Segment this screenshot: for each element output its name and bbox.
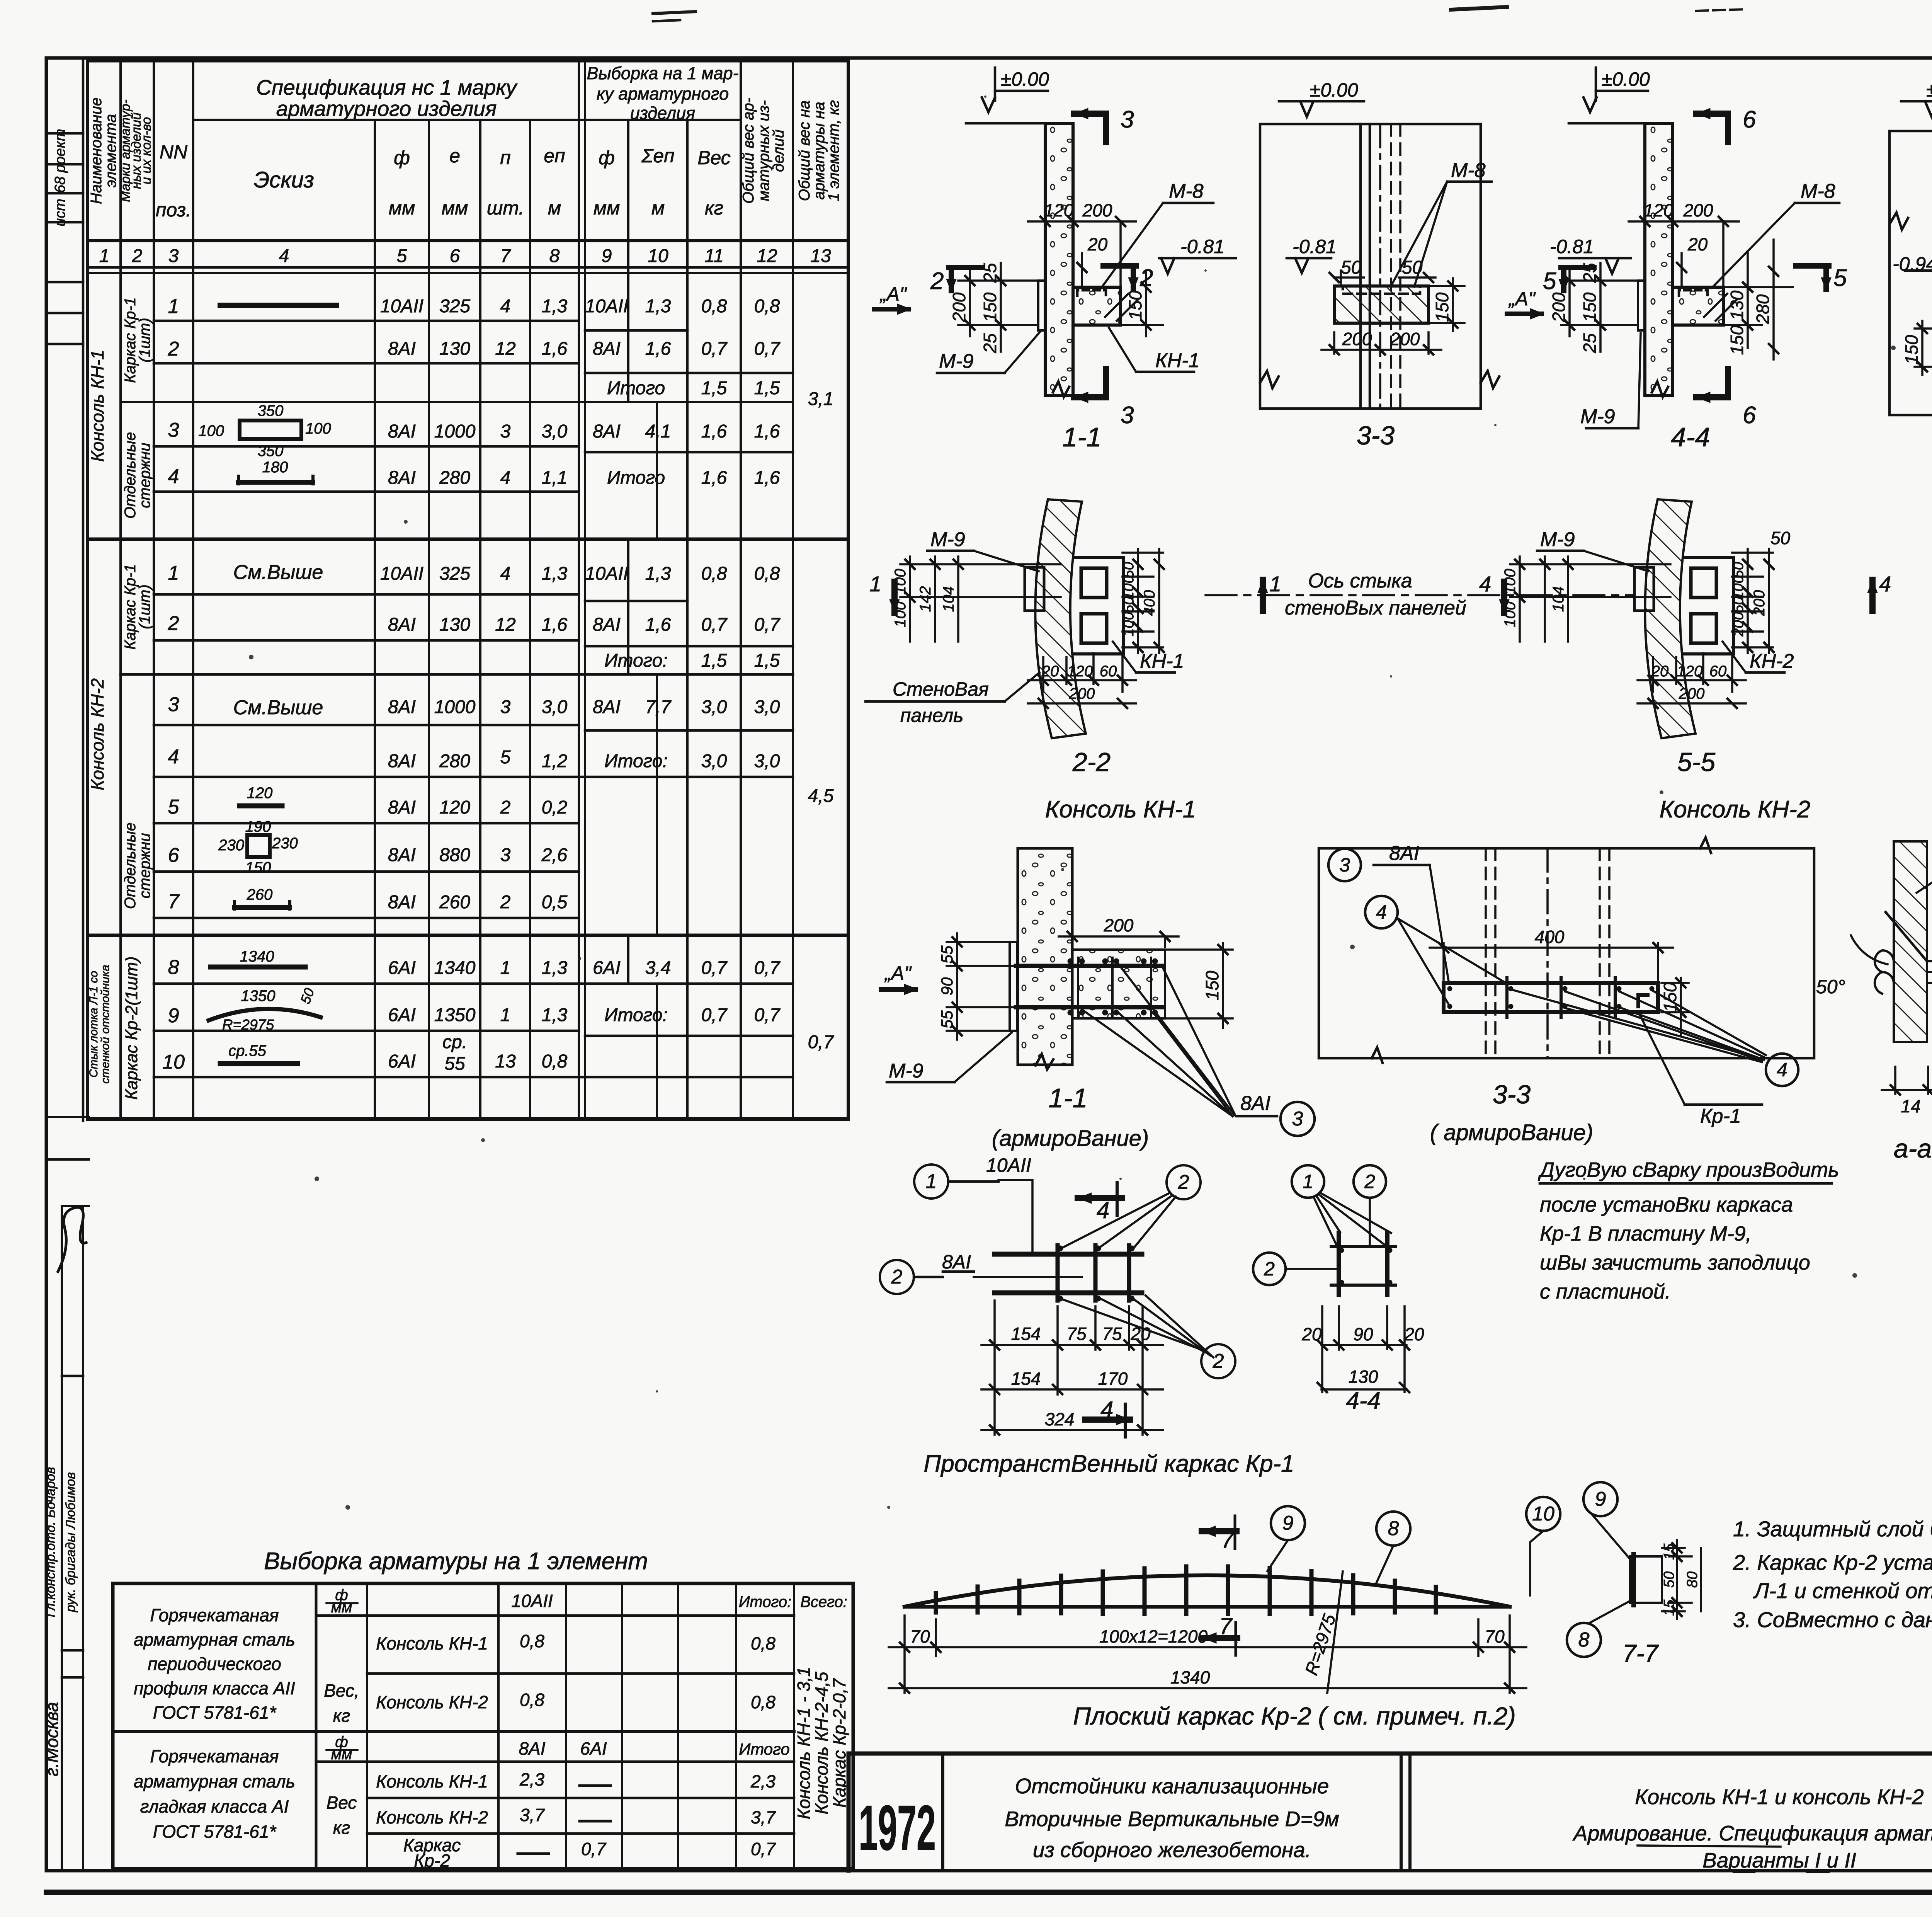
svg-text:12: 12	[495, 615, 515, 635]
svg-text:7: 7	[1221, 1527, 1235, 1553]
svg-text:6АI: 6АI	[593, 958, 621, 978]
svg-text:280: 280	[439, 751, 470, 771]
svg-text:1,6: 1,6	[701, 421, 727, 442]
svg-text:104: 104	[1550, 586, 1567, 612]
svg-text:8АI: 8АI	[388, 892, 416, 913]
svg-text:4: 4	[279, 246, 289, 266]
svg-text:1: 1	[869, 572, 881, 596]
svg-text:1972: 1972	[859, 1792, 936, 1863]
svg-text:0,7: 0,7	[751, 1839, 776, 1859]
svg-text:Вес: Вес	[697, 147, 731, 169]
svg-text:50: 50	[1661, 1571, 1677, 1588]
svg-text:200: 200	[1751, 590, 1768, 616]
svg-text:6: 6	[1743, 106, 1756, 133]
svg-text:130: 130	[1349, 1367, 1378, 1387]
svg-text:8: 8	[1578, 1629, 1590, 1651]
svg-text:Всего:: Всего:	[800, 1594, 847, 1611]
svg-text:3: 3	[168, 246, 179, 266]
svg-text:280: 280	[439, 468, 470, 488]
svg-text:R=2975: R=2975	[222, 1017, 274, 1033]
svg-text:230: 230	[272, 835, 298, 852]
svg-text:Отстойники канализационные: Отстойники канализационные	[1015, 1774, 1329, 1798]
svg-text:Ось стыка: Ось стыка	[1308, 570, 1412, 592]
svg-text:3,7: 3,7	[520, 1805, 545, 1825]
svg-text:2: 2	[1213, 1350, 1224, 1372]
svg-text:75: 75	[1066, 1324, 1087, 1344]
svg-text:4: 4	[1097, 1197, 1109, 1223]
svg-text:50: 50	[1770, 528, 1791, 548]
svg-text:Консоль КН-1 - 3,1: Консоль КН-1 - 3,1	[794, 1667, 814, 1820]
svg-text:1340: 1340	[240, 948, 274, 965]
svg-text:Итого: Итого	[739, 1740, 790, 1758]
svg-text:поз.: поз.	[156, 199, 191, 221]
svg-text:120: 120	[1044, 200, 1074, 220]
svg-text:25: 25	[1580, 263, 1600, 283]
svg-text:0,7: 0,7	[701, 615, 728, 635]
svg-text:3,0: 3,0	[542, 421, 568, 442]
svg-text:6АI: 6АI	[580, 1738, 607, 1759]
svg-text:4: 4	[1479, 572, 1491, 596]
svg-text:20: 20	[1651, 663, 1669, 680]
svg-text:100: 100	[1730, 575, 1747, 599]
svg-text:стеноВых панелей: стеноВых панелей	[1285, 597, 1466, 619]
svg-text:КН-1: КН-1	[1155, 349, 1199, 372]
svg-text:ГОСТ 5781-61*: ГОСТ 5781-61*	[153, 1822, 277, 1842]
svg-text:кг: кг	[333, 1706, 350, 1726]
svg-text:1,6: 1,6	[754, 468, 780, 488]
svg-text:±0.00: ±0.00	[1001, 68, 1049, 90]
svg-text:1: 1	[1269, 572, 1281, 596]
svg-text:200: 200	[1104, 915, 1134, 935]
svg-text:8: 8	[549, 246, 560, 266]
svg-text:М-9: М-9	[930, 528, 965, 551]
svg-text:Σеп: Σеп	[641, 145, 674, 167]
svg-text:Консоль КН-1: Консоль КН-1	[376, 1633, 488, 1653]
svg-text:М-9: М-9	[889, 1060, 923, 1082]
svg-text:10АII: 10АII	[585, 564, 628, 584]
svg-text:1,6: 1,6	[645, 339, 671, 359]
svg-text:Вес,: Вес,	[324, 1680, 359, 1701]
svg-text:М-8: М-8	[1169, 180, 1204, 203]
svg-text:роект: роект	[52, 129, 68, 173]
svg-text:±0.00: ±0.00	[1310, 79, 1358, 101]
svg-text:0,8: 0,8	[520, 1690, 544, 1710]
svg-text:200: 200	[1390, 329, 1420, 349]
svg-text:1,6: 1,6	[542, 615, 568, 635]
svg-text:М-8: М-8	[1801, 180, 1835, 203]
svg-text:2: 2	[168, 338, 179, 360]
svg-text:ф: ф	[599, 147, 615, 169]
svg-text:0,5: 0,5	[542, 892, 568, 913]
svg-text:130: 130	[1727, 290, 1747, 320]
svg-text:13: 13	[495, 1051, 516, 1072]
svg-text:См.Выше: См.Выше	[233, 696, 323, 719]
svg-text:1-1: 1-1	[1062, 422, 1101, 452]
svg-text:1,5: 1,5	[754, 650, 780, 671]
svg-text:3-3: 3-3	[1357, 421, 1395, 450]
svg-text:4: 4	[168, 746, 179, 768]
svg-text:4: 4	[1777, 1059, 1787, 1081]
svg-text:3,7: 3,7	[751, 1807, 776, 1827]
svg-text:324: 324	[1045, 1409, 1075, 1429]
svg-text:0,8: 0,8	[751, 1633, 776, 1653]
svg-text:3,0: 3,0	[701, 697, 727, 717]
svg-text:( армироВание): ( армироВание)	[1430, 1120, 1594, 1145]
svg-text:6: 6	[1743, 402, 1756, 429]
svg-text:Кр-1: Кр-1	[1700, 1105, 1741, 1127]
svg-text:Армирование. Спецификация а: Армирование. Спецификация арматуры.	[1572, 1821, 1932, 1845]
svg-text:3. СоВместно с данным с: 3. СоВместно с данным см. лист АС-5.	[1733, 1607, 1932, 1632]
svg-text:2: 2	[1139, 265, 1153, 291]
svg-text:Общий вес ар-: Общий вес ар-	[740, 98, 757, 204]
svg-text:„А": „А"	[884, 962, 912, 984]
svg-text:4: 4	[168, 465, 179, 488]
svg-text:1340: 1340	[434, 958, 476, 978]
svg-text:-0.81: -0.81	[1180, 236, 1225, 257]
svg-text:Консоль КН-1: Консоль КН-1	[376, 1771, 488, 1791]
svg-text:150: 150	[1580, 292, 1600, 322]
svg-text:0,8: 0,8	[754, 564, 780, 584]
svg-text:100: 100	[1502, 569, 1519, 595]
svg-text:260: 260	[439, 892, 470, 913]
svg-text:400: 400	[1535, 927, 1565, 947]
svg-text:е: е	[449, 145, 460, 167]
svg-text:периодического: периодического	[148, 1654, 281, 1674]
svg-text:7: 7	[1219, 1613, 1233, 1639]
svg-text:Кр-1 В пластину М-9,: Кр-1 В пластину М-9,	[1540, 1222, 1752, 1245]
svg-text:25: 25	[1580, 333, 1600, 354]
svg-text:100: 100	[892, 602, 909, 628]
svg-text:1,5: 1,5	[701, 650, 727, 671]
svg-text:0,8: 0,8	[754, 296, 780, 317]
svg-text:104: 104	[940, 586, 957, 612]
svg-text:12: 12	[757, 246, 777, 266]
svg-text:8АI: 8АI	[388, 797, 416, 818]
svg-text:3,0: 3,0	[701, 751, 727, 771]
svg-text:8АI: 8АI	[388, 615, 416, 635]
svg-text:4: 4	[1376, 901, 1387, 923]
svg-text:Консоль КН-2-4,5: Консоль КН-2-4,5	[811, 1672, 832, 1814]
svg-text:10: 10	[1532, 1503, 1554, 1525]
svg-text:200: 200	[949, 292, 969, 322]
svg-text:1,6: 1,6	[645, 615, 671, 635]
svg-text:Консоль КН-2: Консоль КН-2	[376, 1692, 488, 1712]
svg-text:4,5: 4,5	[808, 786, 834, 806]
svg-text:ГОСТ 5781-61*: ГОСТ 5781-61*	[153, 1702, 277, 1723]
svg-text:100х12=1200: 100х12=1200	[1099, 1626, 1208, 1646]
svg-text:0,8: 0,8	[751, 1692, 776, 1712]
svg-text:280: 280	[1753, 294, 1773, 324]
svg-text:20: 20	[1404, 1324, 1424, 1344]
svg-text:0,7: 0,7	[754, 1005, 781, 1025]
svg-text:1. Защитный слой бетона - 2: 1. Защитный слой бетона - 20мм.	[1733, 1517, 1932, 1541]
svg-text:2: 2	[930, 268, 944, 295]
svg-text:8АI: 8АI	[1389, 842, 1419, 865]
svg-text:3,1: 3,1	[808, 389, 834, 409]
svg-text:мм: мм	[331, 1746, 352, 1763]
svg-text:гладкая класса АI: гладкая класса АI	[140, 1796, 289, 1817]
svg-text:2,3: 2,3	[519, 1769, 544, 1789]
svg-text:9: 9	[1282, 1512, 1294, 1534]
svg-text:8: 8	[168, 956, 179, 979]
svg-text:1-1: 1-1	[1048, 1083, 1087, 1113]
svg-text:20: 20	[1041, 663, 1059, 680]
svg-text:0,8: 0,8	[701, 564, 727, 584]
svg-text:8АI: 8АI	[593, 697, 621, 717]
svg-text:Выборка арматуры на 1 элемен: Выборка арматуры на 1 элемент	[264, 1548, 648, 1575]
svg-text:120: 120	[439, 797, 470, 818]
svg-text:4: 4	[500, 468, 511, 488]
svg-text:из сборного железобетона.: из сборного железобетона.	[1033, 1838, 1311, 1862]
svg-text:1,6: 1,6	[754, 421, 780, 442]
svg-text:190: 190	[245, 818, 271, 835]
svg-text:15: 15	[1661, 1599, 1677, 1616]
svg-text:0,8: 0,8	[701, 296, 727, 317]
svg-text:стержни: стержни	[136, 833, 153, 898]
svg-text:120: 120	[247, 785, 273, 802]
svg-text:делий: делий	[770, 129, 787, 172]
svg-text:6: 6	[168, 844, 179, 867]
svg-text:1: 1	[500, 958, 511, 978]
svg-text:100: 100	[198, 422, 224, 439]
svg-text:арматурного изделия: арматурного изделия	[276, 97, 497, 121]
svg-text:Каркас Кр-2-0,7: Каркас Кр-2-0,7	[829, 1678, 849, 1808]
svg-text:Плоский каркас Кр-2 ( см.: Плоский каркас Кр-2 ( см. примеч. п.2)	[1073, 1702, 1516, 1730]
svg-text:8АI: 8АI	[519, 1738, 545, 1759]
svg-text:260: 260	[247, 886, 273, 903]
svg-text:Выборка на 1 мар-: Выборка на 1 мар-	[587, 63, 739, 83]
svg-text:изделия: изделия	[630, 103, 695, 123]
svg-text:7: 7	[168, 890, 180, 913]
svg-text:50: 50	[1341, 257, 1362, 278]
svg-text:0,7: 0,7	[754, 339, 781, 359]
svg-text:0,8: 0,8	[520, 1631, 544, 1651]
svg-text:3,0: 3,0	[542, 697, 568, 717]
svg-text:180: 180	[262, 459, 288, 476]
svg-text:3: 3	[1339, 854, 1350, 876]
svg-text:г.Москва: г.Москва	[42, 1702, 62, 1777]
svg-text:8АI: 8АI	[388, 751, 416, 771]
svg-text:0,7: 0,7	[754, 958, 781, 978]
svg-text:КН-2: КН-2	[1750, 650, 1794, 672]
svg-text:мм: мм	[389, 197, 415, 219]
svg-text:1,3: 1,3	[542, 1005, 568, 1025]
svg-text:50: 50	[1402, 257, 1423, 278]
svg-text:3: 3	[1292, 1108, 1303, 1130]
svg-text:15: 15	[1661, 1543, 1677, 1560]
svg-text:350: 350	[258, 443, 284, 460]
svg-text:2: 2	[891, 1266, 903, 1288]
svg-text:0,7: 0,7	[581, 1839, 606, 1859]
svg-text:142: 142	[917, 586, 934, 612]
svg-text:880: 880	[439, 845, 470, 865]
svg-text:14: 14	[1901, 1096, 1920, 1116]
svg-text:Итого:: Итого:	[604, 1005, 668, 1025]
svg-text:25: 25	[980, 333, 1000, 354]
svg-text:3-3: 3-3	[1493, 1080, 1531, 1109]
svg-text:6АI: 6АI	[388, 1051, 416, 1072]
svg-text:±0.00: ±0.00	[1926, 79, 1932, 101]
svg-text:Кр-2: Кр-2	[414, 1851, 450, 1871]
svg-text:20: 20	[1301, 1324, 1322, 1344]
svg-text:2,6: 2,6	[541, 845, 568, 865]
svg-text:90: 90	[938, 977, 956, 995]
svg-text:Вторичные Вертикальные D=: Вторичные Вертикальные D=9м	[1005, 1807, 1339, 1831]
svg-text:арматурная сталь: арматурная сталь	[134, 1771, 295, 1791]
svg-text:20: 20	[1087, 234, 1108, 254]
svg-text:8АI: 8АI	[593, 421, 621, 442]
svg-text:4: 4	[500, 564, 511, 584]
svg-text:120: 120	[1677, 663, 1703, 680]
svg-text:2,3: 2,3	[750, 1771, 776, 1791]
svg-text:7-7: 7-7	[1622, 1639, 1659, 1667]
svg-text:154: 154	[1011, 1324, 1041, 1344]
svg-text:170: 170	[1098, 1369, 1128, 1389]
svg-text:арматурная сталь: арматурная сталь	[134, 1629, 295, 1650]
svg-text:3: 3	[1121, 402, 1134, 429]
svg-text:2-2: 2-2	[1072, 747, 1111, 777]
svg-text:6: 6	[450, 246, 460, 266]
svg-text:150: 150	[245, 859, 271, 876]
svg-text:(1шт): (1шт)	[136, 584, 153, 629]
svg-text:68: 68	[52, 177, 68, 193]
svg-text:2: 2	[1178, 1171, 1189, 1193]
svg-text:еп: еп	[544, 145, 565, 167]
svg-text:Горячекатаная: Горячекатаная	[150, 1746, 279, 1766]
svg-text:5-5: 5-5	[1677, 747, 1715, 777]
svg-text:СтеноВая: СтеноВая	[893, 678, 989, 700]
svg-text:4,1: 4,1	[645, 421, 671, 442]
svg-text:„А": „А"	[1508, 288, 1536, 310]
svg-text:1,5: 1,5	[754, 378, 780, 398]
svg-text:12: 12	[495, 339, 515, 359]
svg-text:130: 130	[439, 615, 470, 635]
svg-text:Эскиз: Эскиз	[254, 167, 314, 192]
svg-text:100: 100	[1502, 602, 1519, 628]
svg-text:0,7: 0,7	[808, 1032, 835, 1052]
svg-text:Итого: Итого	[607, 378, 665, 398]
svg-text:с пластиной.: с пластиной.	[1540, 1280, 1671, 1303]
svg-text:1,5: 1,5	[701, 378, 727, 398]
svg-text:8АI: 8АI	[593, 615, 621, 635]
svg-text:200: 200	[1069, 685, 1095, 702]
svg-text:10: 10	[162, 1051, 185, 1073]
svg-text:Стык лотка Л-1 со: Стык лотка Л-1 со	[87, 971, 100, 1078]
svg-text:150: 150	[1901, 335, 1922, 364]
svg-text:ДугоВую сВарку произВодить: ДугоВую сВарку произВодить	[1538, 1158, 1839, 1182]
svg-text:4-4: 4-4	[1346, 1388, 1381, 1414]
svg-text:м: м	[548, 197, 561, 219]
svg-text:Гл.констр.отд. Бочаров: Гл.констр.отд. Бочаров	[43, 1467, 58, 1617]
svg-text:7: 7	[500, 246, 512, 266]
svg-text:325: 325	[439, 564, 470, 584]
svg-text:120: 120	[1067, 663, 1093, 680]
svg-text:0,2: 0,2	[542, 797, 568, 818]
svg-text:5: 5	[168, 796, 180, 818]
svg-text:200: 200	[1549, 292, 1569, 322]
svg-text:1000: 1000	[434, 421, 476, 442]
svg-text:55: 55	[938, 945, 956, 964]
svg-text:0,7: 0,7	[701, 958, 728, 978]
svg-text:Итого: Итого	[607, 468, 665, 488]
svg-text:-0.81: -0.81	[1550, 236, 1594, 257]
svg-text:профиля класса АII: профиля класса АII	[134, 1678, 295, 1698]
svg-text:Итого:: Итого:	[604, 751, 668, 771]
svg-text:кг: кг	[705, 197, 723, 219]
svg-text:1,1: 1,1	[542, 468, 568, 488]
svg-text:120: 120	[1644, 200, 1673, 220]
svg-text:Консоль КН-2: Консоль КН-2	[376, 1807, 488, 1827]
svg-text:325: 325	[439, 296, 470, 317]
svg-text:мм: мм	[442, 197, 468, 219]
svg-text:рук. бригады Любимов: рук. бригады Любимов	[63, 1472, 78, 1612]
svg-text:1,6: 1,6	[701, 468, 727, 488]
svg-text:3: 3	[500, 421, 511, 442]
svg-text:и их кол-во: и их кол-во	[139, 117, 154, 184]
svg-text:9: 9	[1595, 1488, 1606, 1510]
svg-text:1,2: 1,2	[542, 751, 568, 771]
svg-text:75: 75	[1102, 1324, 1122, 1344]
svg-text:3: 3	[500, 845, 511, 865]
svg-text:4: 4	[500, 296, 511, 317]
svg-text:8: 8	[1388, 1517, 1399, 1540]
svg-text:9: 9	[602, 246, 612, 266]
svg-text:1: 1	[1303, 1171, 1313, 1192]
svg-text:±0.00: ±0.00	[1602, 68, 1650, 90]
svg-text:150: 150	[1125, 290, 1145, 320]
svg-text:Горячекатаная: Горячекатаная	[150, 1605, 279, 1625]
svg-text:60: 60	[1709, 663, 1727, 680]
svg-text:м: м	[651, 197, 665, 219]
svg-text:2: 2	[168, 612, 179, 635]
svg-text:10АII: 10АII	[986, 1154, 1031, 1176]
svg-text:25: 25	[980, 263, 1000, 283]
svg-text:0,7: 0,7	[754, 615, 781, 635]
svg-text:а-а: а-а	[1894, 1134, 1932, 1163]
svg-text:0,7: 0,7	[701, 339, 728, 359]
svg-text:150: 150	[980, 292, 1000, 322]
svg-text:80: 80	[1684, 1571, 1701, 1588]
svg-text:5: 5	[397, 246, 407, 266]
svg-text:50: 50	[1730, 597, 1747, 613]
svg-text:200: 200	[1683, 200, 1713, 220]
svg-text:-0.94: -0.94	[1893, 253, 1932, 275]
svg-text:КН-1: КН-1	[1140, 650, 1184, 672]
svg-text:шВы зачистить заподлицо: шВы зачистить заподлицо	[1540, 1251, 1810, 1274]
svg-text:55: 55	[938, 1010, 956, 1028]
svg-text:См.Выше: См.Выше	[233, 561, 323, 584]
svg-text:Консоль КН-2: Консоль КН-2	[87, 678, 107, 790]
svg-text:М-9: М-9	[939, 350, 974, 373]
svg-text:200: 200	[1342, 329, 1372, 349]
svg-text:2: 2	[1264, 1258, 1275, 1280]
svg-text:8АI: 8АI	[388, 339, 416, 359]
svg-text:ПространстВенный каркас Кр-1: ПространстВенный каркас Кр-1	[923, 1451, 1294, 1477]
svg-text:Л-1 и стенкой отстойника н: Л-1 и стенкой отстойника на консоли, см.…	[1753, 1578, 1932, 1603]
svg-text:10АII: 10АII	[380, 564, 423, 584]
svg-text:0,7: 0,7	[701, 1005, 728, 1025]
svg-text:8АI: 8АI	[388, 421, 416, 442]
svg-text:1340: 1340	[1170, 1667, 1210, 1687]
svg-text:элемента: элемента	[102, 114, 119, 187]
svg-text:п: п	[500, 147, 511, 169]
svg-text:панель: панель	[900, 705, 963, 726]
svg-text:10АII: 10АII	[511, 1591, 553, 1611]
svg-text:200: 200	[1730, 612, 1747, 637]
svg-text:5: 5	[1833, 265, 1847, 291]
svg-text:3: 3	[500, 697, 511, 717]
svg-text:мм: мм	[331, 1599, 352, 1616]
